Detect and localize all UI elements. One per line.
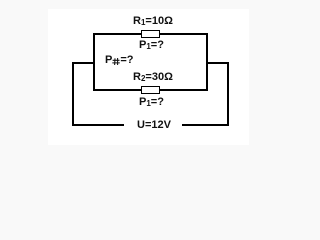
wire top branch horizontal	[93, 33, 208, 35]
resistor R1	[141, 30, 161, 38]
wire left stub	[72, 62, 95, 64]
wire bottom right segment	[182, 124, 229, 126]
wire right outer vertical	[227, 62, 229, 126]
white panel	[48, 9, 249, 145]
wire left outer vertical	[72, 62, 74, 126]
label P1 bottom	[139, 97, 164, 108]
label R1 value	[133, 16, 173, 27]
wire bottom branch horizontal (R2)	[93, 89, 208, 91]
resistor R2	[141, 86, 161, 94]
wire bottom left segment	[72, 124, 124, 126]
wire right inner vertical	[206, 33, 208, 91]
wire right stub	[206, 62, 229, 64]
wire left inner vertical	[93, 33, 95, 91]
label P1 top	[139, 40, 164, 51]
label R2 value	[133, 72, 173, 83]
label P parallel	[105, 55, 134, 66]
label U source	[137, 120, 171, 131]
